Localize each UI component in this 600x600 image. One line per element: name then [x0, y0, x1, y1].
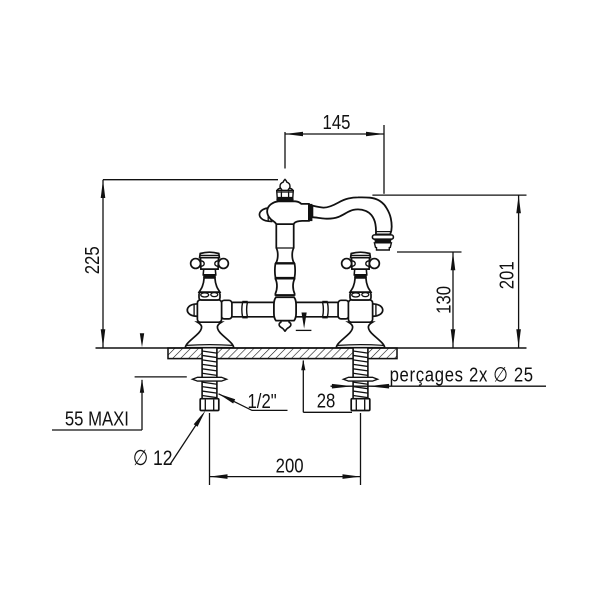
bridge collar right — [338, 300, 349, 319]
column bold band 2 — [275, 277, 295, 280]
column bold band 3 — [275, 294, 294, 296]
column drop finial — [279, 321, 291, 331]
bridge collar left — [221, 300, 232, 319]
svg-text:∅ 12: ∅ 12 — [133, 447, 173, 471]
left threaded shank — [202, 347, 217, 399]
deck reference line — [96, 347, 527, 349]
column finial dome — [280, 179, 290, 190]
column tee — [274, 297, 296, 320]
svg-text:201: 201 — [495, 261, 518, 289]
dimension 28 upper mark — [302, 313, 307, 329]
right handle cap — [351, 252, 371, 258]
svg-text:1/2": 1/2" — [248, 389, 277, 412]
bridge tube right segment — [295, 302, 348, 316]
right handle base — [336, 322, 384, 348]
column dark collar — [276, 198, 293, 202]
svg-text:130: 130 — [432, 286, 455, 314]
left handle side balls — [191, 259, 201, 269]
left nut — [200, 399, 219, 411]
left handle cross hub — [201, 258, 219, 269]
dimension 130 — [397, 251, 462, 253]
right handle bonnet — [350, 278, 371, 292]
label 1/2 inch — [219, 394, 288, 411]
bridge rings right — [322, 302, 325, 317]
left handle valve body — [197, 300, 221, 322]
spout body — [267, 201, 309, 224]
right handle collar ring — [350, 292, 371, 300]
column shaft — [275, 224, 296, 297]
svg-text:55 MAXI: 55 MAXI — [65, 407, 129, 430]
svg-text:perçages 2x ∅ 25: perçages 2x ∅ 25 — [390, 363, 533, 386]
right handle acorn knob — [373, 304, 383, 317]
left handle cap — [200, 252, 220, 258]
left handle acorn knob — [187, 304, 197, 317]
right handle valve body — [348, 300, 372, 322]
left handle front arm — [201, 261, 204, 267]
aerator cup — [374, 243, 391, 250]
svg-text:145: 145 — [323, 111, 351, 134]
dimension 200 — [209, 413, 211, 485]
right nut — [351, 399, 370, 411]
spout outlet joint line — [376, 231, 392, 233]
left handle collar ring — [199, 292, 220, 300]
left handle bonnet — [199, 278, 220, 292]
spout root dark ring — [309, 204, 313, 221]
right threaded shank — [353, 347, 368, 399]
svg-text:200: 200 — [276, 454, 304, 477]
right handle stem — [354, 269, 367, 275]
dimension 225 — [103, 179, 278, 181]
label percages 2x diam 25 — [331, 385, 547, 387]
column hex nut — [277, 191, 294, 198]
deck hatched strip — [168, 348, 397, 359]
right handle side balls — [342, 259, 352, 269]
spout body acorn knob — [260, 208, 272, 222]
bridge rings left — [241, 302, 244, 317]
left handle base — [185, 322, 233, 348]
spout tube — [312, 197, 391, 234]
bridge tube left segment — [222, 302, 275, 316]
aerator flange — [372, 235, 393, 239]
dimension 28 — [301, 360, 305, 371]
right handle front arm — [352, 261, 355, 267]
aerator dark band — [374, 239, 391, 242]
dimension 201 — [372, 194, 526, 196]
svg-text:225: 225 — [80, 246, 103, 274]
right washer — [343, 377, 377, 381]
left washer — [192, 377, 226, 381]
column thin ring line — [276, 247, 293, 249]
label diam 12 — [170, 414, 203, 464]
dimension 55 MAXI — [140, 333, 144, 347]
left handle stem — [203, 269, 216, 275]
svg-text:28: 28 — [317, 389, 336, 412]
column bold band 1 — [275, 262, 295, 264]
right handle cross hub — [352, 258, 370, 269]
column finial skirt — [277, 188, 293, 191]
dimension 145 — [284, 132, 286, 169]
